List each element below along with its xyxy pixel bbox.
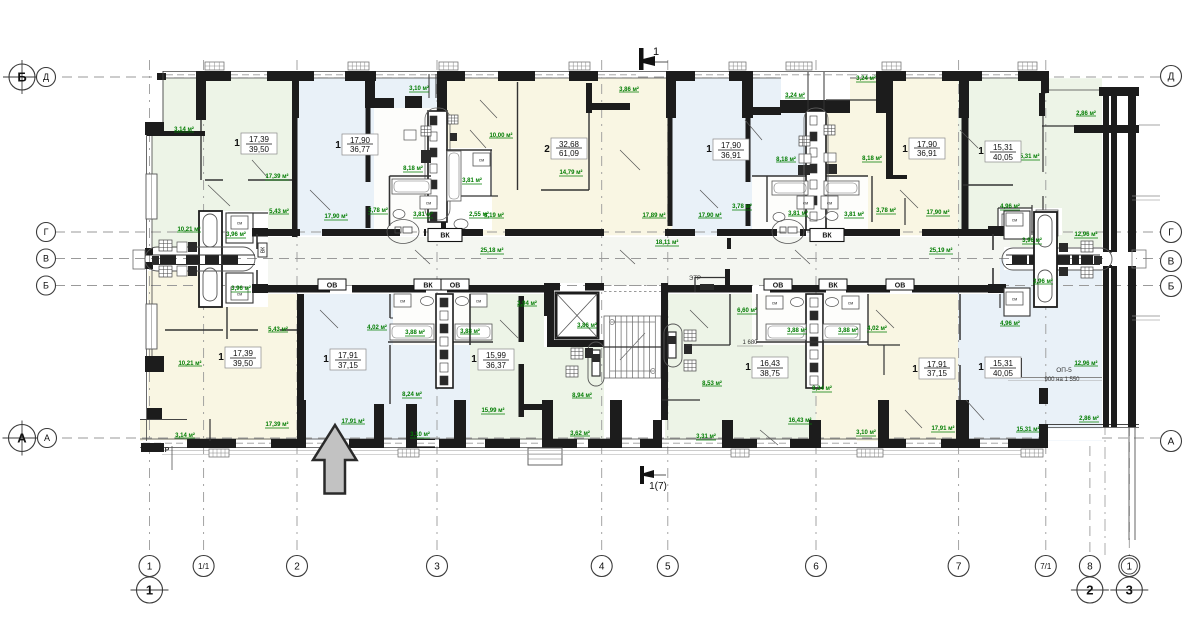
svg-text:15,99: 15,99 bbox=[486, 351, 507, 360]
vestibule tall oval top bbox=[203, 214, 217, 247]
svg-text:4: 4 bbox=[599, 562, 605, 573]
svg-text:6,60 м²: 6,60 м² bbox=[737, 307, 757, 314]
door swing bbox=[208, 185, 230, 206]
svg-text:40,05: 40,05 bbox=[993, 369, 1014, 378]
wing top cap wall bbox=[1099, 87, 1139, 96]
svg-text:900 на 1 550: 900 на 1 550 bbox=[1044, 377, 1080, 383]
kitchen equipment left of vestibule top bbox=[159, 240, 172, 251]
svg-text:см: см bbox=[772, 301, 777, 306]
door swing bbox=[760, 430, 778, 445]
window box top bbox=[786, 62, 812, 70]
green apt bath top wall bbox=[228, 212, 268, 214]
apartment entrance oval right of stairs bbox=[664, 324, 682, 367]
top wall pier bbox=[666, 71, 695, 81]
balcony 3,86 left wall bbox=[586, 83, 592, 113]
axis circle 7/1 bottom bbox=[1035, 556, 1056, 577]
svg-text:см: см bbox=[400, 299, 405, 304]
svg-text:16,43: 16,43 bbox=[760, 359, 781, 368]
washing machine aptE bbox=[821, 196, 838, 209]
svg-text:25,18 м²: 25,18 м² bbox=[480, 247, 503, 254]
window box bottom bbox=[857, 449, 883, 457]
balcony 2,86 thin front bbox=[1049, 89, 1102, 91]
top wall pier bbox=[345, 71, 376, 81]
svg-text:см: см bbox=[848, 301, 853, 306]
svg-text:7: 7 bbox=[956, 562, 962, 573]
svg-text:ВК: ВК bbox=[423, 283, 433, 290]
svg-text:3,10 м²: 3,10 м² bbox=[856, 429, 876, 436]
svg-text:17,91 м²: 17,91 м² bbox=[931, 425, 954, 432]
door swing bbox=[876, 310, 894, 328]
entrance stadium right bbox=[1002, 248, 1112, 270]
shaft axis6 rounded outline bbox=[804, 108, 828, 220]
svg-text:А: А bbox=[1168, 437, 1175, 448]
svg-text:2,86 м²: 2,86 м² bbox=[1079, 415, 1099, 422]
fill balcony 3,10 bbox=[374, 78, 446, 110]
svg-text:ОВ: ОВ bbox=[327, 283, 338, 290]
apt2 wall y190 bbox=[541, 189, 589, 191]
door swing bbox=[966, 400, 984, 420]
svg-text:39,50: 39,50 bbox=[249, 145, 270, 154]
cream balcony 3,24 bottom thin wall bbox=[826, 99, 876, 101]
apartment fill: top-left green apt bbox=[163, 78, 292, 235]
bottom wall stems bbox=[297, 400, 306, 448]
cream apt kitchen divider thin bbox=[883, 345, 885, 375]
apartment entrance oval left of stairs bbox=[588, 342, 604, 386]
svg-text:17,39: 17,39 bbox=[249, 135, 270, 144]
door swing bbox=[795, 250, 810, 264]
svg-text:38,75: 38,75 bbox=[760, 369, 781, 378]
door swing bbox=[480, 100, 497, 118]
axis circle 4 bottom bbox=[591, 556, 612, 577]
corridor top wall right piece bbox=[988, 229, 1004, 236]
outside landing right bbox=[1132, 250, 1146, 268]
bottom-left apt wall y330 bbox=[165, 329, 223, 331]
white: wet zones bottom axis6 bbox=[752, 294, 868, 345]
shaft axis6 bbox=[806, 111, 826, 230]
bathtub aptD bbox=[772, 181, 808, 195]
svg-text:Д: Д bbox=[43, 72, 49, 82]
window box top bbox=[729, 62, 746, 70]
svg-text:3,88 м²: 3,88 м² bbox=[787, 327, 807, 334]
axis circle 1/1 bottom bbox=[193, 556, 214, 577]
loggia 3,14 corner block bbox=[147, 408, 162, 419]
apt2 left wall bbox=[441, 78, 446, 237]
apartment fill: top green apt (axis 7-7/1) bbox=[958, 78, 1102, 235]
loggia 3,14 top wall bbox=[140, 419, 187, 421]
svg-text:39,50: 39,50 bbox=[233, 359, 254, 368]
top wall pier bbox=[196, 71, 231, 81]
svg-text:17,91: 17,91 bbox=[338, 351, 359, 360]
kitchen fixtures aptE bbox=[824, 125, 835, 135]
fill loggia 3,14 bottom left bbox=[140, 419, 210, 441]
white: bath apt2 bbox=[446, 148, 492, 230]
vestibule tall oval bottom bbox=[203, 268, 217, 301]
svg-text:8: 8 bbox=[1087, 562, 1093, 573]
washing machine bottom bath bbox=[231, 287, 248, 300]
stair flight bbox=[604, 316, 661, 378]
svg-text:ЭТР: ЭТР bbox=[689, 276, 701, 282]
bottom blue apt interior walls bbox=[389, 294, 391, 318]
elevator shaft bbox=[556, 293, 598, 338]
white: bath apt F top right bbox=[998, 208, 1062, 235]
svg-text:14,79 м²: 14,79 м² bbox=[559, 169, 582, 176]
bathtub bottom cream 17,91 bbox=[823, 324, 860, 340]
apartment fill: top cream apt (axis 6-7) bbox=[820, 78, 958, 235]
green apt room/kitchen wall y180 bbox=[205, 179, 223, 181]
svg-text:3,88 м²: 3,88 м² bbox=[405, 329, 425, 336]
door swing bbox=[320, 310, 338, 328]
balcony 3,86 back wall bbox=[586, 103, 630, 110]
apartment fill: top blue apt (axis 2-3) bbox=[292, 78, 446, 235]
svg-text:1: 1 bbox=[912, 364, 918, 375]
horizontal axis lines bbox=[30, 76, 1160, 78]
white: stair block bbox=[604, 285, 665, 441]
svg-text:3,31 м²: 3,31 м² bbox=[696, 433, 716, 440]
svg-text:3,81 м²: 3,81 м² bbox=[413, 211, 433, 218]
washing machine bottom green bbox=[470, 294, 487, 307]
divider cream/blue bottom thin bbox=[959, 294, 961, 340]
top wall pier bbox=[729, 71, 753, 81]
white: vestibule column bottom patch bbox=[199, 294, 253, 307]
aptF bath walls bbox=[997, 208, 999, 235]
axis circle 3 bottom bbox=[427, 556, 448, 577]
svg-text:36,37: 36,37 bbox=[486, 361, 507, 370]
washing machine right top bbox=[1006, 213, 1023, 226]
entrance door blocks right bbox=[1012, 255, 1027, 265]
svg-text:5: 5 bbox=[665, 562, 671, 573]
svg-text:3,96 м²: 3,96 м² bbox=[226, 231, 246, 238]
stair right wall bbox=[661, 283, 668, 420]
toilets axis6 bbox=[773, 213, 785, 222]
svg-text:1: 1 bbox=[146, 583, 153, 598]
aptF room/kitchen divider thin bbox=[1042, 116, 1044, 172]
left wall window box lower bbox=[146, 304, 157, 349]
left wall entrance stub lower bbox=[145, 262, 153, 269]
door swing bbox=[905, 410, 922, 428]
kitchen fixtures left of shaft axis3 bbox=[421, 126, 431, 136]
axis circle G left bbox=[37, 223, 56, 242]
axis circle G right bbox=[1161, 222, 1182, 243]
svg-text:Г: Г bbox=[44, 227, 49, 237]
svg-text:12,96 м²: 12,96 м² bbox=[1074, 231, 1097, 238]
svg-text:36,77: 36,77 bbox=[350, 145, 371, 154]
svg-text:4,96 м²: 4,96 м² bbox=[1000, 203, 1020, 210]
loggia 3,14 divider bbox=[209, 419, 211, 441]
divider 16,43 loggia top thin bbox=[662, 399, 700, 401]
wing bottom cross blocks bbox=[1103, 395, 1109, 427]
section circle 3 bottom-right bbox=[1116, 577, 1142, 603]
svg-text:17,39: 17,39 bbox=[233, 349, 254, 358]
svg-text:1: 1 bbox=[335, 140, 341, 151]
bath 3,96 top box bbox=[226, 213, 253, 243]
window box top bbox=[348, 62, 369, 70]
svg-text:Б: Б bbox=[43, 281, 49, 291]
toilet apt2 bbox=[454, 219, 468, 229]
washing machine top bath bbox=[231, 216, 248, 229]
axis circle 8 bottom bbox=[1079, 556, 1100, 577]
washing machine bottom 17,91 bbox=[842, 296, 859, 309]
axis circle 6 bottom bbox=[806, 556, 827, 577]
stair opening dotted lines bbox=[604, 285, 662, 287]
svg-text:ОП-5: ОП-5 bbox=[1056, 367, 1072, 374]
right lobby wall bbox=[988, 226, 1006, 234]
top wall pier bbox=[569, 71, 598, 81]
aptE room left wall bbox=[886, 79, 893, 179]
fill: bottom cream apt 17,91 bbox=[816, 294, 958, 441]
svg-text:17,39 м²: 17,39 м² bbox=[265, 421, 288, 428]
aptE/F divider lower bbox=[962, 118, 969, 230]
wing passage at B axis bbox=[1103, 252, 1136, 266]
small VK shaft left lobby bbox=[258, 243, 267, 257]
door swing bbox=[620, 250, 635, 264]
svg-text:18,11 м²: 18,11 м² bbox=[656, 239, 679, 246]
top wall pier bbox=[437, 71, 465, 81]
svg-text:3,10 м²: 3,10 м² bbox=[410, 431, 430, 438]
top-left corner mark bbox=[157, 73, 166, 80]
apt2 living walls x587 bbox=[587, 83, 592, 113]
door swing bbox=[745, 120, 762, 140]
white: elevator block bbox=[544, 283, 604, 347]
washing machine aptD bbox=[797, 196, 814, 209]
axis circle A crosshair bottom-left bbox=[9, 425, 36, 452]
fill: bottom green apt 16,43 bbox=[662, 294, 816, 441]
svg-text:Д: Д bbox=[1168, 72, 1175, 83]
svg-text:17,90: 17,90 bbox=[721, 141, 742, 150]
balcony recessed wall y100-113 kitchens axis6 bbox=[780, 100, 850, 113]
top wall pier bbox=[876, 71, 906, 81]
stair diagonal cut bbox=[620, 333, 645, 360]
left step block lower bbox=[145, 356, 164, 372]
door swing bbox=[310, 190, 330, 210]
window box bottom bbox=[398, 449, 419, 457]
porch bottom middle bbox=[528, 448, 562, 465]
window box bottom bbox=[1021, 449, 1043, 457]
section circle 2 bottom-right bbox=[1077, 577, 1103, 603]
right bath boxes bbox=[1004, 211, 1030, 239]
svg-text:15,31: 15,31 bbox=[993, 143, 1014, 152]
bottom right corner L wall bbox=[1039, 424, 1048, 448]
panel boxes near right stair entrance bbox=[684, 330, 696, 341]
wall between green apt and blue apt (axis2) bbox=[292, 78, 298, 237]
svg-text:40,05: 40,05 bbox=[993, 153, 1014, 162]
svg-text:1: 1 bbox=[471, 354, 477, 365]
kitchen fixtures aptD bbox=[799, 136, 810, 146]
svg-text:см: см bbox=[476, 299, 481, 304]
vestibule column walls bbox=[199, 211, 222, 307]
svg-text:ОВ: ОВ bbox=[895, 283, 906, 290]
aptF balcony bottom thin bbox=[1042, 125, 1074, 127]
wing sill ticks bbox=[1132, 195, 1160, 197]
svg-text:36,91: 36,91 bbox=[721, 151, 742, 160]
right vestibule column bbox=[1034, 212, 1057, 307]
bottom-left apt room top wall bbox=[230, 329, 258, 331]
svg-text:Г: Г bbox=[1168, 228, 1174, 239]
svg-text:61,09: 61,09 bbox=[559, 149, 580, 158]
axis circle 2 bottom bbox=[287, 556, 308, 577]
svg-text:8,18 м²: 8,18 м² bbox=[403, 165, 423, 172]
bathtub blue apt axis3 bbox=[392, 179, 431, 194]
svg-text:3,96 м²: 3,96 м² bbox=[1022, 237, 1042, 244]
corridor bottom wall bbox=[268, 285, 330, 293]
svg-text:16,43 м²: 16,43 м² bbox=[788, 417, 811, 424]
cream sliver below entrance band bbox=[148, 271, 199, 294]
svg-text:8,24 м²: 8,24 м² bbox=[812, 385, 832, 392]
bathtub bottom-left pair A bbox=[390, 324, 434, 340]
svg-text:ВК: ВК bbox=[261, 247, 267, 253]
bathtub bottom-left pair B bbox=[455, 324, 492, 340]
wing right wall lower thin extension bbox=[1128, 427, 1130, 540]
shaft axis3 thin stem up bbox=[428, 74, 430, 98]
white outside below loggia 2,86 bbox=[1048, 429, 1102, 441]
fill: bottom blue apt 15,31 bbox=[958, 294, 1102, 441]
lobby wall right of vestibule bbox=[252, 228, 268, 237]
door swing bbox=[252, 160, 268, 178]
aptF hall wall y185 bbox=[963, 184, 1013, 186]
fill balcony 2,86 top right bbox=[1049, 91, 1102, 127]
aptD/E kitchens bath wall y176 bbox=[752, 175, 806, 177]
window box top bbox=[205, 62, 224, 70]
blue apt bathroom axis3 bbox=[390, 175, 432, 177]
apartment fill: top cream apt 2-room bbox=[446, 78, 672, 235]
svg-text:1: 1 bbox=[234, 138, 240, 149]
bottom right window wall OP-5 label zone bbox=[1014, 358, 1022, 378]
left wall entrance stub upper bbox=[145, 248, 153, 256]
svg-text:Б: Б bbox=[17, 70, 26, 85]
aptD room wall lower bbox=[746, 118, 751, 182]
svg-text:1: 1 bbox=[745, 362, 751, 373]
door oval corridor axis6 bbox=[772, 220, 804, 244]
svg-text:1: 1 bbox=[147, 562, 153, 573]
svg-text:3,88 м²: 3,88 м² bbox=[838, 327, 858, 334]
axis circle V right bbox=[1161, 251, 1182, 272]
stub wall above corner bbox=[1039, 388, 1048, 404]
fill balcony 3,86 bbox=[588, 78, 667, 104]
stove grid apt2 kitchen near shaft bbox=[448, 115, 458, 124]
corridor top wall bbox=[260, 229, 300, 236]
fill: bottom blue apt (axis 2-3) bbox=[297, 294, 470, 441]
axis circle V left bbox=[37, 249, 56, 268]
svg-text:8,24 м²: 8,24 м² bbox=[402, 391, 422, 398]
blue apt right wall bbox=[365, 78, 371, 108]
svg-text:см: см bbox=[1012, 218, 1017, 223]
axis circle B left bbox=[37, 276, 56, 295]
door swing bbox=[470, 130, 486, 148]
bottom wet wall y294-345 separators bbox=[469, 294, 471, 345]
white: wet zone axis3 top bbox=[374, 108, 446, 235]
door swing bbox=[690, 310, 708, 328]
top wall pier bbox=[498, 71, 535, 81]
bottom blue apt left wall bbox=[297, 294, 304, 448]
VK box on corridor top wall axis3 bbox=[428, 229, 462, 242]
svg-text:1(7): 1(7) bbox=[649, 481, 667, 492]
stair arrows bbox=[610, 321, 655, 323]
panel boxes near left stair entrance bbox=[571, 348, 583, 359]
right kitchen equipment bbox=[1081, 241, 1093, 252]
bathtub apt2 vertical bbox=[447, 151, 461, 201]
svg-text:3,24 м²: 3,24 м² bbox=[856, 75, 876, 82]
window box top bbox=[569, 62, 590, 70]
bathtub aptE bbox=[824, 181, 859, 195]
svg-text:1: 1 bbox=[706, 144, 712, 155]
svg-text:8,18 м²: 8,18 м² bbox=[862, 155, 882, 162]
svg-text:1: 1 bbox=[902, 144, 908, 155]
fill green kitchen 12,96 right bbox=[1000, 211, 1102, 258]
left edge loggia top bbox=[162, 71, 164, 133]
door swing bbox=[900, 190, 918, 208]
entrance small box bbox=[152, 256, 159, 264]
svg-text:1 680: 1 680 bbox=[742, 340, 758, 346]
bottom right thin loggia wall 2,86 bbox=[1048, 424, 1139, 426]
VK box on corridor top wall axis6 bbox=[810, 229, 844, 242]
door swing bbox=[620, 150, 640, 170]
balcony 3,24 left back wall step bbox=[748, 107, 781, 115]
bath 3,96 bottom box bbox=[226, 273, 253, 303]
svg-text:ВК: ВК bbox=[828, 283, 838, 290]
corridor fill bbox=[268, 237, 1010, 285]
svg-text:1: 1 bbox=[653, 46, 659, 58]
svg-text:17,39 м²: 17,39 м² bbox=[265, 173, 288, 180]
svg-text:2: 2 bbox=[544, 144, 550, 155]
svg-text:1: 1 bbox=[978, 362, 984, 373]
elevator block walls bbox=[547, 283, 554, 347]
wing left wall B bbox=[1111, 96, 1117, 427]
axis circle A right bbox=[1161, 431, 1182, 452]
svg-text:см: см bbox=[237, 221, 242, 226]
svg-text:см: см bbox=[479, 158, 484, 163]
bottom shaft axis3 bbox=[436, 294, 453, 388]
section marker 1(7) bottom bbox=[640, 466, 644, 484]
left outside step bbox=[133, 250, 145, 269]
white: shaft axis6 bbox=[806, 108, 826, 235]
svg-text:4,02 м²: 4,02 м² bbox=[867, 325, 887, 332]
balcony 2,86 corner pier bbox=[1041, 71, 1049, 93]
svg-text:1: 1 bbox=[218, 352, 224, 363]
OV boxes on corridor bottom wall bbox=[318, 279, 346, 290]
door swing bbox=[960, 130, 978, 148]
bottom wall window bands bbox=[143, 440, 185, 446]
shaft axis6 thin walls up bbox=[807, 72, 809, 111]
big gray direction arrow bbox=[313, 425, 357, 494]
washing machine apt2 bbox=[473, 153, 490, 166]
top exterior wall bbox=[163, 70, 1049, 72]
svg-text:3,81 м²: 3,81 м² bbox=[462, 177, 482, 184]
top wall pier bbox=[942, 71, 982, 81]
fill: bottom-left cream apt bbox=[148, 294, 297, 441]
window box top bbox=[882, 62, 901, 70]
svg-text:А: А bbox=[17, 431, 27, 446]
svg-text:6: 6 bbox=[813, 562, 819, 573]
apt2 kitchen/living wall x517 bbox=[517, 82, 519, 190]
entrance stadium left bbox=[145, 247, 255, 271]
white outside zone above kitchens axis6 bbox=[781, 72, 850, 100]
svg-text:Р: Р bbox=[165, 447, 170, 454]
bottom wall piers bbox=[187, 439, 236, 448]
svg-text:15,31: 15,31 bbox=[993, 359, 1014, 368]
svg-text:1/1: 1/1 bbox=[198, 562, 210, 571]
left wall thin lower bbox=[146, 269, 148, 441]
wing T wall bbox=[1074, 125, 1139, 133]
axis circle D right bbox=[1161, 66, 1182, 87]
svg-text:1: 1 bbox=[978, 146, 984, 157]
axis circle D left bbox=[37, 68, 56, 87]
washing machine bottom 16,43 bbox=[766, 296, 783, 309]
bottom-left apt kitchen/room divider bbox=[226, 307, 228, 339]
toilets bottom axis6 bbox=[791, 298, 804, 307]
aptE hall divider bbox=[904, 198, 906, 225]
ETR niche walls bbox=[725, 269, 730, 290]
bottom cream apt interior bbox=[867, 294, 869, 345]
svg-text:17,90 м²: 17,90 м² bbox=[926, 209, 949, 216]
